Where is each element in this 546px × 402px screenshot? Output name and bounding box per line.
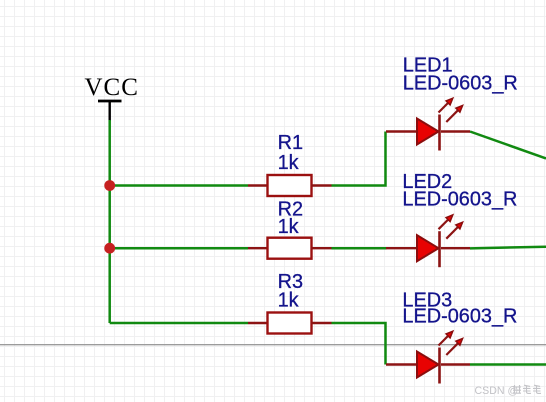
svg-text:LED-0603_R: LED-0603_R [403, 72, 518, 94]
svg-text:CSDN @: CSDN @ [475, 385, 519, 397]
svg-text:1k: 1k [278, 152, 299, 174]
svg-text:1k: 1k [278, 216, 299, 238]
svg-text:VCC: VCC [85, 74, 139, 101]
svg-text:LED-0603_R: LED-0603_R [402, 305, 517, 327]
svg-text:LED-0603_R: LED-0603_R [402, 189, 517, 211]
svg-text:1k: 1k [278, 289, 299, 311]
